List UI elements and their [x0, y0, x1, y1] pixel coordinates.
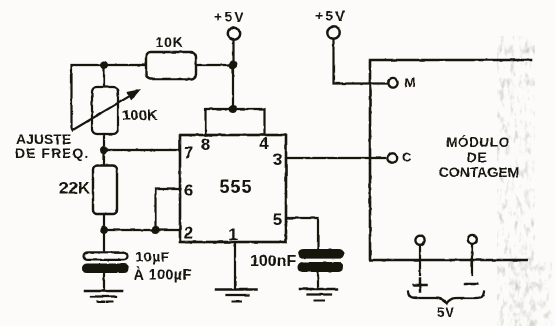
- scan smudge streaks bottom right: [508, 262, 552, 326]
- wire node C to 555 pin 7: [104, 149, 180, 151]
- wire +5V right supply to terminal M: [334, 39, 389, 84]
- node F junction on strap: [229, 105, 237, 113]
- svg-text:DE: DE: [467, 150, 487, 165]
- wire node A down to strap node F: [232, 65, 234, 109]
- node B junction above potentiometer: [100, 61, 108, 69]
- wire 555 pin 1 to ground: [234, 242, 236, 289]
- svg-text:100K: 100K: [122, 107, 158, 124]
- svg-text:CONTAGEM: CONTAGEM: [439, 164, 520, 180]
- svg-text:À 100µF: À 100µF: [134, 267, 192, 284]
- svg-text:3: 3: [273, 150, 282, 169]
- wire 555 pin 3 to terminal C: [286, 157, 385, 159]
- wire pot bottom to node C: [103, 134, 105, 164]
- wire pins 8-4 top strap: [206, 109, 265, 135]
- svg-text:100nF: 100nF: [250, 253, 296, 270]
- svg-text:MÓDULO: MÓDULO: [446, 135, 510, 150]
- resistor R2 22K: [59, 166, 117, 215]
- module block MODULO DE CONTAGEM: [370, 60, 531, 260]
- svg-text:M: M: [405, 75, 416, 90]
- wire C2 to ground: [317, 272, 319, 289]
- svg-text:7: 7: [184, 143, 193, 162]
- terminal + (module supply): [414, 236, 427, 292]
- node D junction below 22K: [100, 226, 108, 234]
- power +5V terminal (left supply): [214, 9, 246, 40]
- wire C1 to ground: [103, 273, 105, 291]
- capacitor C2 100nF: [250, 249, 344, 272]
- node A junction at +5V column: [229, 61, 237, 69]
- label AJUSTE DE FREQ.: [15, 131, 89, 161]
- svg-text:5: 5: [273, 210, 282, 229]
- op IC U1 555 timer: [180, 135, 286, 242]
- brace for 5V supply span: [408, 292, 484, 304]
- svg-text:+5V: +5V: [214, 9, 246, 25]
- svg-text:5V: 5V: [437, 305, 455, 320]
- svg-text:2: 2: [184, 224, 193, 243]
- svg-text:+5V: +5V: [315, 8, 347, 24]
- terminal M: [388, 75, 415, 90]
- svg-text:6: 6: [184, 181, 193, 200]
- wire node B down to potentiometer top: [103, 65, 105, 87]
- node C junction at pot bottom: [100, 146, 108, 154]
- terminal C: [388, 150, 412, 165]
- wire from +5V terminal down to node A: [232, 40, 234, 65]
- wire node D down to capacitor C1: [103, 230, 105, 252]
- terminal − (module supply): [465, 235, 478, 284]
- svg-text:10K: 10K: [156, 34, 184, 50]
- svg-text:10µF: 10µF: [136, 249, 170, 265]
- svg-text:C: C: [402, 150, 412, 165]
- wire 555 pin 5 to capacitor C2: [286, 218, 318, 249]
- wire 10K right terminal to node A: [196, 64, 233, 66]
- svg-text:DE FREQ.: DE FREQ.: [15, 145, 89, 161]
- svg-text:4: 4: [259, 134, 269, 153]
- svg-text:1: 1: [228, 225, 237, 244]
- svg-text:22K: 22K: [59, 179, 91, 198]
- scan smudge band right: [497, 36, 535, 326]
- wire top-left horizontal to 10K and pot branch: [72, 65, 147, 129]
- ground (below C2): [300, 289, 337, 301]
- node E junction on pin2 wire: [152, 226, 160, 234]
- wire node E up to 555 pin 6: [156, 189, 181, 230]
- svg-text:555: 555: [219, 177, 252, 197]
- power +5V terminal (right supply): [315, 8, 347, 39]
- ground (below C1): [85, 291, 122, 302]
- potentiometer P1 100K: [72, 87, 158, 134]
- svg-text:8: 8: [201, 135, 210, 154]
- ground (below pin 1): [216, 290, 257, 302]
- wire node D to 555 pin 2: [104, 229, 180, 231]
- wire 22K bottom to node D: [103, 214, 105, 230]
- capacitor C1 electrolytic 10uF..100uF: [82, 249, 192, 284]
- resistor R1 10K: [146, 34, 196, 79]
